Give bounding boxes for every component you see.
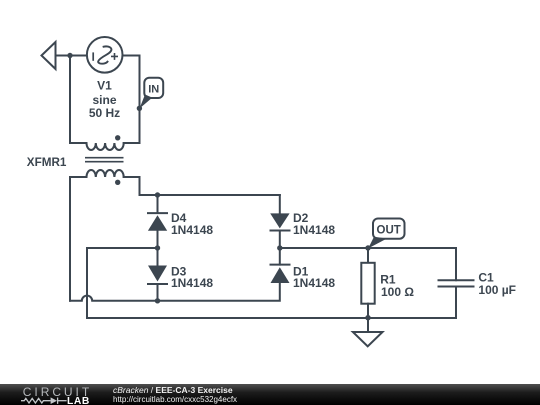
- wire mid-left node to second leg: [87, 248, 158, 318]
- junction dot bottom rail: [155, 298, 160, 303]
- V1 minus bar: [92, 52, 94, 60]
- transformer core lines: [85, 158, 124, 162]
- AC2 bottom rail with hop: [70, 283, 280, 301]
- ground symbol: [353, 332, 383, 346]
- svg-text:1N4148: 1N4148: [293, 223, 335, 237]
- junction dot OUT node: [365, 245, 370, 250]
- credit line 2: [113, 396, 237, 404]
- diode D2 cathode bar: [270, 230, 291, 232]
- svg-text:XFMR1: XFMR1: [27, 156, 67, 169]
- transformer secondary coil: [87, 170, 124, 177]
- resistor R1 body: [361, 263, 374, 304]
- wire secondary left leg: [70, 177, 87, 301]
- svg-text:OUT: OUT: [377, 225, 401, 237]
- wire secondary right to top rail: [124, 177, 280, 195]
- logo CIRCUIT text: [23, 386, 92, 398]
- diode D3 triangle: [148, 266, 167, 282]
- diode D1 triangle: [271, 267, 290, 283]
- wire D4 bottom: [157, 231, 159, 248]
- flag OUT box: [373, 219, 405, 239]
- input arrow flag: [42, 42, 56, 69]
- junction dot top rail: [155, 192, 160, 197]
- svg-text:1N4148: 1N4148: [293, 276, 335, 290]
- polarity dot secondary: [115, 180, 120, 185]
- svg-text:1N4148: 1N4148: [171, 276, 213, 290]
- logo LAB text: [67, 397, 90, 405]
- junction dot IN attach: [137, 106, 142, 111]
- wire D2 bottom: [279, 231, 281, 249]
- flag IN box: [144, 78, 163, 98]
- credit line 1: [113, 386, 233, 395]
- wire D2 top: [279, 195, 281, 213]
- wire D4 top: [157, 195, 159, 213]
- wire C1 bottom: [455, 287, 457, 319]
- diode D1 cathode bar: [270, 264, 291, 266]
- transformer XFMR1 primary coil: [87, 143, 124, 150]
- diode D4 triangle: [148, 215, 167, 230]
- svg-text:sine: sine: [92, 93, 116, 107]
- wire R1 bottom: [367, 304, 369, 318]
- flag OUT tail: [368, 237, 387, 249]
- voltage source V1 circle: [87, 37, 123, 73]
- wire R1 top: [367, 248, 369, 263]
- junction dot R1 bottom: [365, 315, 370, 320]
- V1 sine squiggle: [98, 46, 111, 63]
- wire left leg down from junction: [70, 56, 87, 144]
- diode D3 cathode bar: [147, 283, 168, 285]
- wire C1 top: [455, 248, 457, 280]
- svg-text:1N4148: 1N4148: [171, 223, 213, 237]
- junction dot arrow: [67, 53, 72, 58]
- diode D2 triangle: [270, 213, 289, 228]
- svg-text:IN: IN: [148, 84, 159, 96]
- wire arrow to source: [56, 55, 87, 57]
- logo resistor-diode glyph: [0, 384, 110, 405]
- wire D1 top: [279, 248, 281, 265]
- wire primary right to corner: [124, 142, 140, 144]
- ground rail wire: [87, 317, 456, 319]
- wire D3 bottom: [157, 284, 159, 301]
- DC+ rail: [280, 247, 456, 249]
- svg-text:100 µF: 100 µF: [478, 283, 516, 297]
- polarity dot primary: [115, 135, 120, 140]
- flag IN tail: [140, 95, 153, 109]
- svg-text:V1: V1: [97, 78, 112, 92]
- junction dot mid-right: [277, 245, 282, 250]
- capacitor C1 plates: [438, 280, 475, 286]
- diode D4 cathode bar: [147, 212, 168, 214]
- svg-text:50 Hz: 50 Hz: [89, 106, 120, 120]
- wire ground stub: [367, 318, 369, 332]
- svg-text:100 Ω: 100 Ω: [381, 285, 414, 299]
- junction dot mid-left: [155, 245, 160, 250]
- V1 plus sign: [111, 53, 118, 60]
- wire D3 top: [157, 248, 159, 266]
- footer bar: [0, 384, 540, 405]
- wire source to right corner and down: [123, 56, 140, 144]
